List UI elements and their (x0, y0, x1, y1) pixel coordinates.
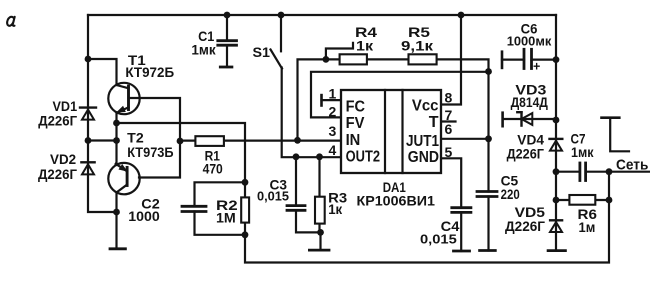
svg-text:4: 4 (329, 142, 337, 158)
svg-text:КТ973Б: КТ973Б (127, 144, 173, 160)
svg-text:8: 8 (445, 89, 453, 105)
svg-text:5: 5 (445, 144, 453, 160)
svg-text:1: 1 (329, 86, 337, 102)
svg-text:3: 3 (329, 123, 337, 139)
svg-text:0,015: 0,015 (257, 188, 289, 203)
svg-text:Vcc: Vcc (412, 98, 439, 115)
svg-text:GND: GND (408, 149, 439, 166)
svg-text:1000: 1000 (128, 208, 160, 224)
svg-text:1к: 1к (328, 201, 343, 217)
svg-text:T2: T2 (127, 130, 144, 146)
svg-text:Д814Д: Д814Д (511, 94, 548, 110)
svg-text:1M: 1M (216, 210, 236, 226)
svg-text:Д226Г: Д226Г (507, 146, 544, 162)
svg-text:FC: FC (346, 98, 366, 115)
svg-text:Д226Г: Д226Г (38, 166, 77, 182)
svg-text:6: 6 (445, 121, 453, 137)
svg-text:1мк: 1мк (191, 42, 216, 58)
svg-text:2: 2 (329, 103, 337, 119)
svg-text:JUT1: JUT1 (406, 133, 439, 150)
svg-text:1000мк: 1000мк (507, 34, 552, 49)
svg-text:220: 220 (501, 186, 520, 202)
svg-text:КТ972Б: КТ972Б (125, 64, 174, 80)
svg-text:Д226Г: Д226Г (505, 218, 545, 234)
svg-text:0,015: 0,015 (420, 232, 457, 247)
svg-text:1м: 1м (579, 219, 596, 235)
svg-text:КР1006ВИ1: КР1006ВИ1 (357, 193, 436, 209)
svg-text:T: T (429, 114, 439, 131)
svg-text:Сеть: Сеть (616, 157, 648, 174)
svg-text:+: + (533, 59, 540, 73)
svg-text:FV: FV (346, 115, 365, 132)
svg-text:IN: IN (346, 132, 361, 149)
svg-text:9,1к: 9,1к (401, 38, 434, 54)
svg-text:1мк: 1мк (571, 144, 594, 160)
svg-text:VD2: VD2 (50, 151, 76, 167)
svg-text:OUT2: OUT2 (346, 148, 380, 165)
svg-text:1к: 1к (356, 38, 374, 54)
svg-text:Д226Г: Д226Г (38, 113, 77, 129)
svg-text:470: 470 (203, 160, 223, 176)
svg-text:S1: S1 (253, 44, 271, 60)
